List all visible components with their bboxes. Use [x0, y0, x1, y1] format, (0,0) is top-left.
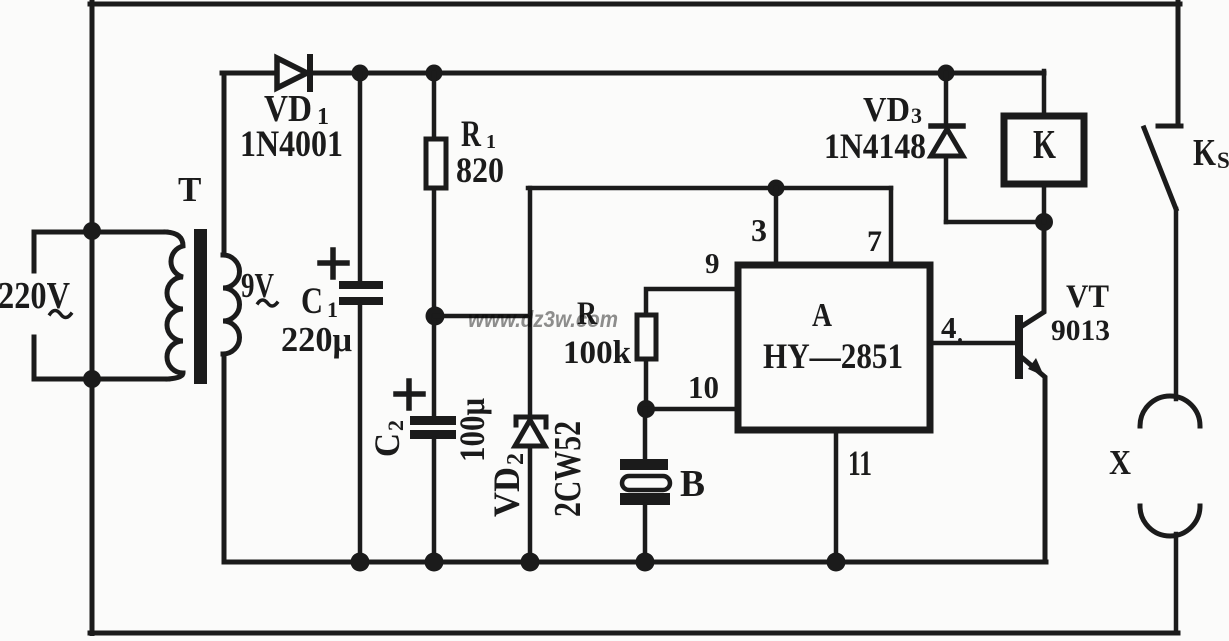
wire pin 9	[646, 289, 738, 315]
wire C1 bottom lead	[358, 305, 363, 562]
wire R1 bottom lead	[432, 188, 437, 316]
wire zener column	[528, 188, 533, 415]
svg-text:9V: 9V	[241, 266, 274, 305]
resistor R	[637, 315, 656, 359]
node collector junction	[1035, 213, 1053, 231]
tilde 220V	[50, 311, 71, 318]
svg-text:R: R	[461, 114, 482, 155]
wire right border upper	[1176, 2, 1181, 124]
svg-text:C: C	[367, 433, 407, 457]
label 100k	[563, 335, 632, 371]
svg-text:1N4001: 1N4001	[240, 124, 343, 165]
zener diode VD2	[515, 417, 546, 446]
label C1	[301, 281, 338, 322]
wire relay K top lead	[1042, 71, 1047, 113]
transistor VT collector	[1019, 222, 1044, 328]
label 820	[456, 150, 504, 190]
svg-text:3: 3	[911, 103, 922, 128]
node C1 top junction	[352, 65, 369, 82]
wire pin 4	[931, 341, 1017, 346]
svg-text:S: S	[1217, 148, 1229, 173]
svg-text:100μ: 100μ	[452, 398, 492, 462]
label 100u	[452, 398, 492, 462]
label T	[178, 170, 201, 209]
wire 220V top lead	[34, 232, 166, 271]
svg-text:B: B	[680, 463, 705, 505]
wire right border lower	[1174, 534, 1179, 632]
svg-text:100k: 100k	[563, 335, 632, 371]
svg-text:1: 1	[327, 297, 338, 322]
svg-text:www.dz3w.com: www.dz3w.com	[468, 306, 618, 332]
diode VD3	[931, 126, 963, 156]
label R1	[461, 114, 496, 155]
label R	[577, 296, 598, 332]
svg-text:11: 11	[848, 443, 872, 483]
wire right border below switch	[1174, 209, 1179, 399]
pin number 11	[848, 443, 872, 483]
node VD3 top junction	[938, 65, 955, 82]
node R1 top junction	[426, 65, 443, 82]
pin number 7	[867, 225, 882, 258]
wire secondary bottom lead	[222, 354, 227, 562]
wire secondary top lead	[222, 73, 227, 255]
svg-text:.: .	[957, 322, 963, 348]
label VD1	[264, 88, 329, 130]
wire relay K bottom lead	[1042, 184, 1047, 222]
svg-text:9013: 9013	[1051, 314, 1110, 347]
wire 220V bottom lead	[34, 337, 168, 379]
transformer T secondary winding	[223, 255, 240, 354]
wire junction to zener	[435, 314, 530, 319]
svg-text:820: 820	[456, 150, 504, 190]
svg-text:K: K	[1033, 121, 1056, 167]
label Ks	[1193, 132, 1229, 174]
capacitor C1	[339, 281, 383, 305]
diode VD1	[277, 57, 310, 89]
svg-text:VT: VT	[1066, 279, 1109, 315]
pin number 3	[751, 212, 767, 248]
svg-text:HY—2851: HY—2851	[763, 336, 903, 376]
svg-text:1N4148: 1N4148	[824, 126, 926, 166]
wire B bottom lead	[643, 505, 648, 562]
node regulated supply junction	[426, 307, 445, 326]
node bus B	[636, 553, 655, 572]
label 1N4001	[240, 124, 343, 165]
svg-text:2: 2	[383, 420, 408, 431]
label 2CW52	[547, 421, 589, 517]
svg-text:9: 9	[705, 248, 720, 280]
wire pin 10	[646, 407, 738, 412]
wire pin 11	[834, 430, 839, 562]
svg-text:X: X	[1109, 443, 1131, 482]
svg-text:10: 10	[688, 369, 719, 405]
svg-text:K: K	[1193, 132, 1216, 174]
svg-text:220μ: 220μ	[281, 320, 352, 359]
watermark	[468, 306, 618, 332]
wire pin 3	[774, 188, 779, 265]
wire junction to C2	[432, 316, 437, 416]
svg-text:VD: VD	[863, 90, 910, 129]
svg-text:C: C	[301, 281, 323, 322]
relay K	[1004, 116, 1084, 184]
wire top border	[90, 2, 1180, 7]
svg-text:2: 2	[503, 453, 529, 465]
wire C1 top lead	[358, 73, 363, 283]
resistor R1	[426, 139, 446, 188]
label 220u	[281, 320, 352, 359]
label HY-2851	[763, 336, 903, 376]
op-amp U1: IC A HY-2851	[738, 265, 930, 430]
transformer T primary winding	[166, 232, 183, 379]
svg-text:4: 4	[941, 310, 957, 345]
label B	[680, 463, 705, 505]
tilde 9V	[258, 300, 277, 306]
wire pin 7	[889, 188, 894, 265]
label VD3	[863, 90, 922, 129]
transistor VT emitter	[1019, 355, 1045, 562]
switch Ks	[1144, 126, 1181, 209]
svg-text:A: A	[812, 297, 832, 334]
wire C2 bottom lead	[432, 439, 437, 562]
node bus C1	[351, 553, 370, 572]
svg-text:7: 7	[867, 225, 882, 258]
label 9013	[1051, 314, 1110, 347]
wire R1 top lead	[432, 73, 437, 139]
wire VD3 bottom lead	[944, 156, 949, 222]
wire B top lead	[643, 409, 648, 459]
svg-text:3: 3	[751, 212, 767, 248]
label VD2	[487, 453, 529, 517]
transistor Q1 VT base bar	[1015, 319, 1023, 375]
node bus C2	[425, 553, 444, 572]
polarity plus C1	[320, 250, 347, 277]
wire left border	[90, 2, 95, 635]
wire VD3 to collector node	[946, 220, 1044, 225]
node bus pin11	[827, 553, 846, 572]
label 220V	[0, 275, 70, 317]
pin number 10	[688, 369, 719, 405]
label A	[812, 297, 832, 334]
label X	[1109, 443, 1131, 482]
svg-text:2CW52: 2CW52	[547, 421, 589, 517]
wire top supply bus	[222, 71, 1044, 76]
wire bottom border	[90, 631, 1178, 636]
label 1N4148	[824, 126, 926, 166]
load X (socket)	[1140, 396, 1200, 536]
label VT	[1066, 279, 1109, 315]
wire VD3 top lead	[944, 73, 949, 124]
emitter arrow	[1028, 358, 1044, 376]
wire R bottom lead	[644, 359, 649, 409]
node pin3 junction	[768, 180, 785, 197]
node bus VD2	[521, 553, 540, 572]
node mains bottom junction	[83, 370, 101, 388]
node mains top junction	[83, 222, 101, 240]
node pin10 junction	[637, 400, 655, 418]
svg-text:VD: VD	[487, 467, 528, 517]
pin number 9	[705, 248, 720, 280]
svg-text:220V: 220V	[0, 275, 70, 317]
wire Vcc rail to IC	[528, 186, 891, 191]
wire bottom ground bus	[224, 560, 1046, 565]
piezo element B	[620, 459, 670, 505]
capacitor C2	[410, 416, 456, 439]
wire VD2 bottom lead	[528, 446, 533, 562]
transformer T core	[194, 229, 207, 384]
pin number 4	[941, 310, 963, 348]
label C2	[367, 420, 408, 457]
label K	[1033, 121, 1056, 167]
svg-text:T: T	[178, 170, 201, 209]
polarity plus C2	[396, 381, 423, 408]
label 9V	[241, 266, 274, 305]
